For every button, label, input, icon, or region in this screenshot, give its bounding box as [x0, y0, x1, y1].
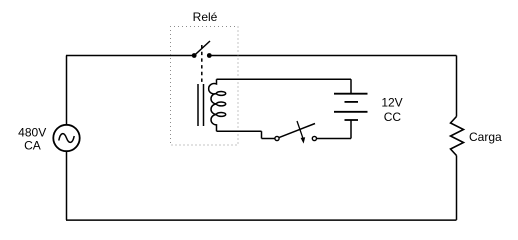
relay contact left terminal (node) [192, 53, 197, 58]
wire pushbutton to jog [262, 138, 275, 140]
wire right vertical (top wire down to load) [456, 56, 458, 117]
relay coil L1 [209, 79, 226, 131]
label 480V CA [18, 126, 46, 153]
label Relé [193, 10, 218, 24]
relay contact blade (open switch) [194, 41, 210, 56]
battery B1 [334, 94, 368, 120]
svg-text:CC: CC [384, 110, 402, 124]
pushbutton right terminal [312, 136, 316, 140]
label 12V CC [381, 96, 402, 125]
pushbutton left terminal [275, 136, 279, 140]
resistor load (Carga) [451, 117, 464, 156]
wire top-right (relay contact to load) [210, 55, 457, 57]
relay enclosure dotted box [171, 27, 239, 146]
wire top-left (source to relay contact) [66, 55, 194, 57]
AC source V1 480V CA [53, 125, 79, 151]
wire battery top lead [350, 79, 352, 94]
wire battery bottom lead [350, 120, 352, 139]
wire left vertical (AC source down to bottom wire) [66, 152, 68, 220]
pushbutton actuator arrow [297, 121, 305, 144]
svg-text:Relé: Relé [193, 10, 218, 24]
relay core (iron core lines) [198, 84, 204, 126]
svg-text:CA: CA [24, 139, 41, 153]
label Carga [469, 130, 502, 144]
wire right vertical (load down to bottom wire) [456, 156, 458, 220]
wire jog vertical [261, 131, 263, 138]
pushbutton blade [279, 124, 315, 138]
relay contact right terminal (node) [207, 53, 212, 58]
svg-text:12V: 12V [381, 96, 402, 110]
wire left vertical (top wire down to AC source) [66, 56, 68, 125]
wire bottom (left to right) [66, 219, 457, 221]
wire jog to coil bottom [217, 130, 262, 132]
wire battery to pushbutton [317, 138, 351, 140]
relay actuator dashed link [201, 45, 203, 82]
svg-text:Carga: Carga [469, 130, 502, 144]
wire inner top (coil to battery) [217, 78, 352, 80]
svg-text:480V: 480V [18, 126, 46, 140]
